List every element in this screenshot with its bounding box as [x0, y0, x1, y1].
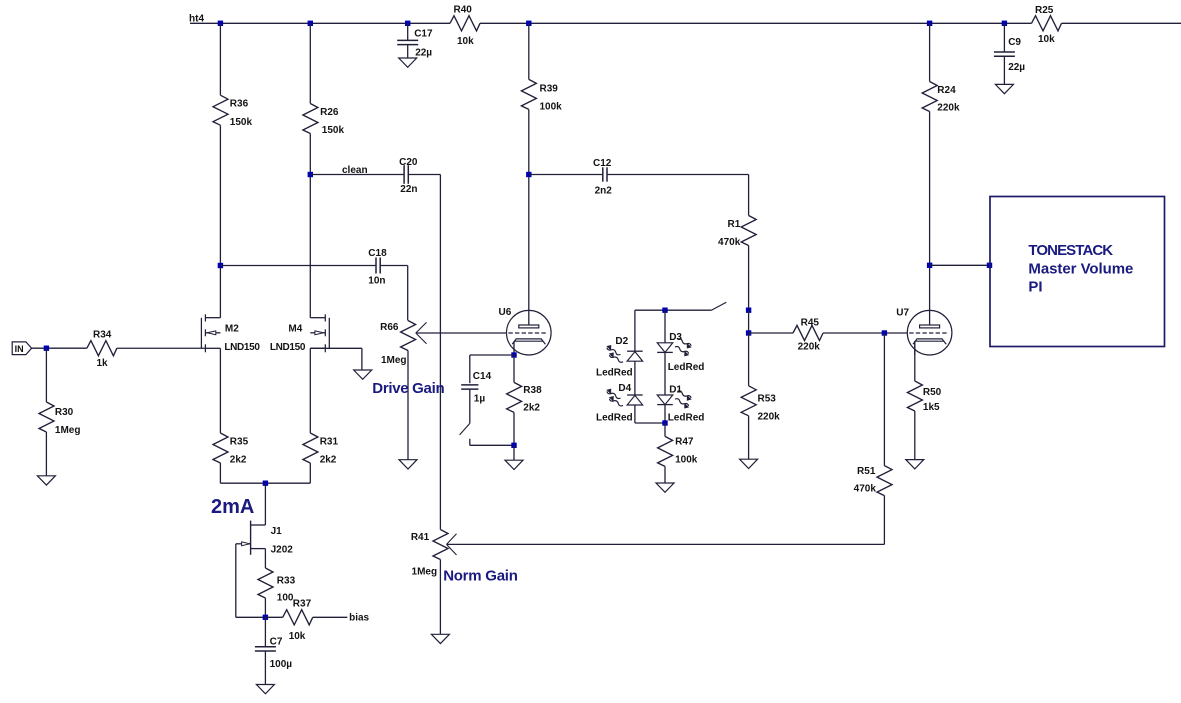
wire R34 to M2 gate [117, 347, 205, 349]
svg-text:C14: C14 [473, 371, 492, 382]
svg-text:R36: R36 [230, 99, 249, 110]
junction cathode network bottom [511, 443, 516, 448]
wire R45 right [823, 332, 907, 334]
wire cathode node to C14 [470, 354, 514, 356]
diode D1 [657, 384, 704, 423]
svg-text:C7: C7 [270, 636, 283, 647]
svg-text:LedRed: LedRed [596, 368, 633, 379]
wire R53 bottom [748, 416, 750, 459]
wire IN to node [32, 347, 87, 349]
triode U7 [896, 308, 952, 356]
resistor R1 [718, 216, 756, 248]
svg-text:10n: 10n [368, 276, 385, 287]
ground R50 [906, 460, 924, 469]
svg-text:1Meg: 1Meg [55, 425, 81, 436]
wire R36 to M2 drain [219, 125, 221, 318]
wire C20 to drop [408, 174, 440, 176]
svg-text:R1: R1 [728, 219, 741, 230]
wire M2 source [219, 348, 221, 433]
svg-text:D4: D4 [618, 383, 631, 394]
wire R30 bottom [45, 432, 47, 476]
wire R24 to U7 [929, 112, 931, 311]
wire R53 top [748, 333, 750, 386]
wire C18 to drop [380, 265, 408, 267]
svg-text:R24: R24 [937, 85, 956, 96]
wire R41 bottom [439, 560, 441, 635]
wire M2 drain tap to C18 [220, 265, 376, 267]
resistor R33 [258, 568, 296, 604]
junction rail x1004 [1002, 21, 1007, 26]
wire R38 bottom [513, 412, 515, 445]
wire R36 top [219, 23, 221, 95]
ground R53 [740, 459, 758, 468]
svg-text:PI: PI [1028, 278, 1042, 295]
wire source join [220, 482, 310, 484]
svg-text:R45: R45 [801, 317, 820, 328]
svg-text:M4: M4 [288, 323, 302, 334]
wire C7 top [264, 617, 266, 647]
junction box port [987, 263, 992, 268]
junction IN node [44, 346, 49, 351]
wire C17 bottom [407, 45, 409, 58]
junction U7 anode node [927, 263, 932, 268]
svg-text:22µ: 22µ [415, 48, 432, 59]
svg-text:R30: R30 [55, 407, 74, 418]
transistor M2 [201, 314, 260, 353]
svg-text:D2: D2 [615, 336, 628, 347]
resistor R51 [854, 466, 892, 496]
svg-text:R53: R53 [758, 394, 777, 405]
svg-text:R38: R38 [523, 385, 542, 396]
wire bottom to node [470, 444, 514, 446]
svg-text:220k: 220k [758, 411, 781, 422]
svg-text:1k5: 1k5 [923, 402, 940, 413]
junction diode top node [662, 308, 667, 313]
ground U6 cathode [505, 460, 523, 469]
capacitor C18 [368, 248, 387, 287]
svg-text:C12: C12 [593, 158, 612, 169]
junction U7 grid node [882, 330, 887, 335]
resistor R47 [658, 436, 698, 466]
wire R1 node to grid line [748, 310, 750, 333]
wire D1 bottom [664, 405, 666, 423]
svg-text:R35: R35 [230, 437, 249, 448]
svg-text:150k: 150k [322, 125, 345, 136]
svg-text:100k: 100k [675, 454, 698, 465]
junction R1 switch node [746, 308, 751, 313]
svg-text:100k: 100k [540, 101, 563, 112]
wire switch stub [469, 439, 471, 446]
wire U7 cathode [914, 341, 916, 381]
svg-text:R50: R50 [923, 387, 942, 398]
svg-text:Drive Gain: Drive Gain [372, 380, 444, 397]
capacitor C14 [461, 371, 491, 405]
ground C9 [995, 84, 1013, 93]
svg-text:2k2: 2k2 [523, 403, 540, 414]
junction source join [263, 481, 268, 486]
diode D4 [596, 383, 643, 424]
wire R45 left [749, 332, 793, 334]
ground C7 [256, 685, 274, 694]
resistor R25 [1032, 5, 1062, 45]
switch blade at C14 [460, 423, 470, 435]
block TONESTACK Master Volume PI [990, 197, 1165, 347]
wire to J1 drain [264, 483, 266, 525]
svg-text:R26: R26 [320, 107, 339, 118]
svg-text:10k: 10k [1038, 34, 1055, 45]
svg-text:R51: R51 [857, 466, 876, 477]
svg-text:1Meg: 1Meg [381, 355, 407, 366]
svg-text:R34: R34 [93, 329, 112, 340]
wire J1 source [264, 549, 266, 568]
svg-text:M2: M2 [225, 323, 239, 334]
wire diode right column top [664, 310, 666, 343]
svg-text:R33: R33 [277, 575, 296, 586]
svg-text:22µ: 22µ [1008, 62, 1025, 73]
svg-text:bias: bias [349, 613, 369, 624]
svg-text:LedRed: LedRed [668, 362, 705, 373]
wire R24 top [929, 23, 931, 81]
svg-text:R39: R39 [540, 84, 559, 95]
junction rail x220 [218, 21, 223, 26]
wire R47 bottom [664, 466, 666, 483]
wire D2 to D4 [634, 361, 636, 395]
svg-text:C9: C9 [1008, 37, 1021, 48]
wire R26 to M4 drain [309, 134, 311, 318]
svg-text:22n: 22n [400, 184, 417, 195]
svg-text:10k: 10k [457, 36, 474, 47]
wire M4 gate [310, 347, 362, 349]
svg-text:2mA: 2mA [211, 496, 254, 518]
diode D3 [657, 332, 704, 373]
svg-text:LedRed: LedRed [596, 413, 633, 424]
wire C17 top [407, 23, 409, 40]
svg-text:LedRed: LedRed [668, 413, 705, 424]
capacitor C17 [397, 29, 433, 59]
svg-text:10k: 10k [289, 631, 306, 642]
wire R37 to bias [313, 616, 348, 618]
diode D2 [596, 336, 643, 378]
resistor R39 [521, 79, 562, 112]
svg-text:1Meg: 1Meg [412, 566, 438, 577]
svg-text:220k: 220k [937, 103, 960, 114]
svg-text:Master Volume: Master Volume [1028, 260, 1133, 277]
wire anode node to box [930, 264, 990, 266]
wire M4 source [309, 348, 311, 433]
junction rail x310 [308, 21, 313, 26]
wire C14 lower [469, 389, 471, 423]
wire R47 top [664, 423, 666, 436]
svg-text:470k: 470k [854, 483, 877, 494]
ground R41 [431, 634, 449, 643]
svg-text:C17: C17 [414, 29, 433, 40]
wire R26 top [309, 23, 311, 103]
ground R30 [37, 476, 55, 485]
svg-text:2n2: 2n2 [595, 185, 613, 196]
resistor R45 [793, 317, 823, 352]
svg-text:D3: D3 [669, 332, 682, 343]
wire R50 bottom [914, 411, 916, 460]
junction R45 left node [746, 330, 751, 335]
wire R37 left [265, 616, 282, 618]
capacitor C12 [593, 158, 612, 196]
svg-text:R37: R37 [293, 599, 312, 610]
wire C14 upper [469, 355, 471, 383]
resistor R24 [922, 82, 960, 114]
junction rail x529 [526, 21, 531, 26]
svg-text:C20: C20 [399, 157, 418, 168]
svg-text:R47: R47 [675, 436, 694, 447]
resistor R50 [907, 381, 941, 413]
resistor R31 [303, 433, 339, 466]
capacitor C7 [255, 636, 292, 670]
svg-text:Norm Gain: Norm Gain [443, 567, 518, 584]
wire R66 wiper to U6 grid [416, 332, 507, 334]
transistor M4 [270, 314, 329, 353]
switch blade diode line [711, 302, 726, 310]
resistor R37 [283, 599, 313, 642]
resistor R36 [213, 95, 252, 128]
svg-text:C18: C18 [368, 248, 387, 259]
svg-text:100: 100 [277, 593, 294, 604]
svg-text:100µ: 100µ [270, 659, 293, 670]
ground M4 gate [354, 370, 372, 379]
wire rail mid segment [480, 22, 1032, 24]
svg-text:1k: 1k [97, 358, 109, 369]
wire D3 to D1 [664, 352, 666, 395]
svg-text:U7: U7 [896, 308, 909, 319]
capacitor C20 [399, 157, 418, 195]
svg-text:R40: R40 [454, 5, 473, 16]
wire R39 top [528, 23, 530, 79]
junction diode bottom node [662, 420, 667, 425]
ground R47 [656, 483, 674, 492]
svg-text:IN: IN [15, 344, 24, 354]
port IN [12, 342, 31, 355]
svg-text:150k: 150k [230, 117, 253, 128]
wire C12 to R1 [607, 174, 749, 176]
svg-text:D1: D1 [669, 384, 682, 395]
wire diode top rail [635, 309, 712, 311]
svg-text:U6: U6 [499, 307, 512, 318]
wire C20 drop to R41 [439, 175, 441, 530]
wire R38 top [513, 355, 515, 382]
svg-text:R66: R66 [380, 322, 399, 333]
node clean [308, 172, 313, 177]
capacitor C9 [994, 37, 1025, 73]
resistor R53 [741, 386, 780, 423]
junction C18 tap [218, 263, 223, 268]
wire R35 bottom [219, 463, 221, 483]
ground R66 [399, 460, 417, 469]
triode U6 [499, 307, 552, 355]
wire R51 top [883, 333, 885, 466]
wire C9 top [1003, 23, 1005, 52]
wire R66 bottom [407, 351, 409, 460]
resistor R34 [87, 329, 117, 369]
wire clean to C20 [310, 174, 404, 176]
ground C17 [399, 58, 417, 67]
wire R33 bottom [264, 598, 266, 617]
svg-text:470k: 470k [718, 237, 741, 248]
svg-text:LND150: LND150 [224, 342, 260, 353]
junction bias node [263, 615, 268, 620]
svg-text:TONESTACK: TONESTACK [1028, 242, 1113, 259]
wire R30 top [45, 348, 47, 402]
wire C7 bottom [264, 651, 266, 685]
wire R31 bottom [309, 463, 311, 483]
resistor R30 [39, 402, 80, 436]
resistor R40 [450, 5, 480, 48]
svg-text:1µ: 1µ [474, 394, 486, 405]
svg-text:J1: J1 [271, 526, 283, 537]
junction rail x408 [405, 21, 410, 26]
wire R51 bottom [883, 496, 885, 545]
resistor R38 [507, 382, 542, 413]
resistor R26 [303, 104, 345, 137]
wire ht4 rail left segment [190, 22, 450, 24]
resistor R35 [213, 433, 249, 466]
transistor J1 [236, 521, 293, 556]
wire D4 bottom [634, 405, 636, 423]
junction rail x930 [927, 21, 932, 26]
svg-text:R31: R31 [320, 437, 339, 448]
wire J1 gate feedback [235, 544, 237, 618]
wire C12 left [529, 174, 603, 176]
junction U6 cathode node [511, 352, 516, 357]
wire R39 to anode [528, 109, 530, 310]
wire R1 bottom [748, 246, 750, 311]
svg-text:2k2: 2k2 [320, 455, 337, 466]
potentiometer R66 [380, 321, 426, 367]
wire C9 bottom [1003, 56, 1005, 84]
svg-text:J202: J202 [271, 544, 294, 555]
junction C12 tap [526, 172, 531, 177]
svg-text:LND150: LND150 [270, 342, 306, 353]
svg-text:2k2: 2k2 [230, 455, 247, 466]
potentiometer R41 [411, 530, 457, 578]
wire rail right segment [1062, 22, 1181, 24]
svg-text:220k: 220k [798, 342, 821, 353]
svg-text:R25: R25 [1035, 5, 1054, 16]
wire to ground U6 [513, 445, 515, 460]
wire diode left column top [634, 310, 636, 351]
svg-text:R41: R41 [411, 532, 430, 543]
